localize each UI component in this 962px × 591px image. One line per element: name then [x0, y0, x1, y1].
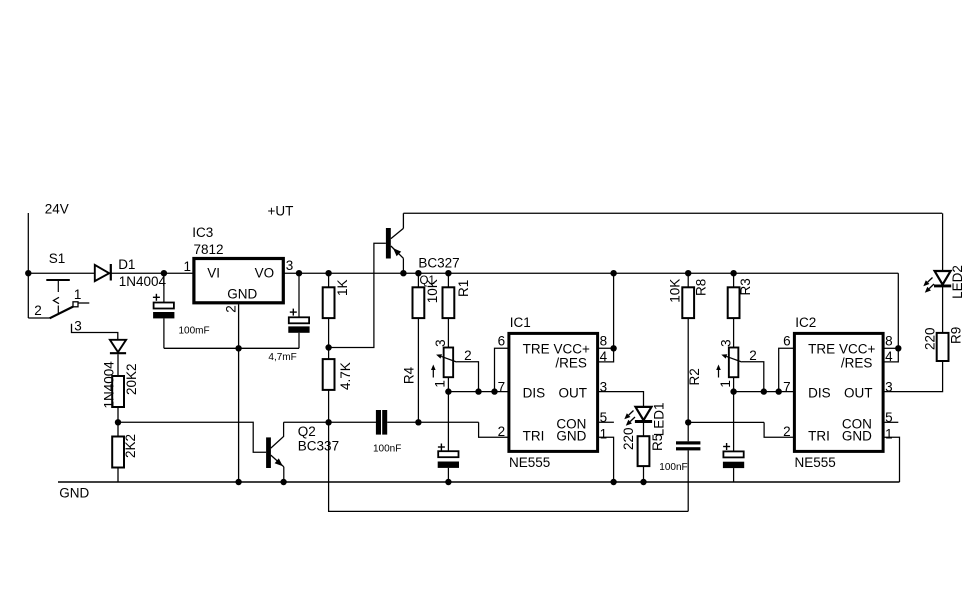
svg-text:4.7K: 4.7K	[338, 362, 353, 390]
svg-text:7: 7	[498, 379, 506, 394]
svg-text:GND: GND	[556, 429, 586, 444]
svg-text:24V: 24V	[45, 202, 69, 217]
svg-text:20K2: 20K2	[124, 363, 139, 395]
svg-text:R8: R8	[694, 279, 709, 296]
svg-text:2K2: 2K2	[123, 434, 138, 458]
svg-text:3: 3	[74, 318, 82, 333]
svg-text:100nF: 100nF	[373, 444, 401, 455]
svg-text:IC2: IC2	[795, 315, 816, 330]
svg-text:+UT: +UT	[268, 204, 294, 219]
svg-text:3: 3	[718, 339, 733, 347]
svg-text:Q2: Q2	[298, 424, 316, 439]
svg-text:NE555: NE555	[509, 455, 550, 470]
svg-text:VCC+: VCC+	[839, 341, 876, 356]
svg-text:TRE: TRE	[523, 341, 550, 356]
svg-text:GND: GND	[59, 486, 89, 501]
svg-text:BC337: BC337	[298, 438, 339, 453]
svg-text:2: 2	[783, 424, 791, 439]
svg-text:IC1: IC1	[510, 315, 531, 330]
svg-text:LED2: LED2	[950, 265, 962, 299]
svg-text:1: 1	[184, 259, 192, 274]
svg-text:100nF: 100nF	[659, 462, 687, 473]
svg-text:BC327: BC327	[418, 256, 459, 271]
svg-text:NE555: NE555	[795, 455, 836, 470]
svg-text:VI: VI	[207, 265, 220, 280]
svg-text:6: 6	[498, 334, 506, 349]
svg-text:GND: GND	[227, 287, 257, 302]
svg-text:/RES: /RES	[555, 356, 587, 371]
svg-text:2: 2	[464, 348, 472, 363]
svg-text:LED1: LED1	[652, 403, 667, 437]
svg-text:7812: 7812	[194, 242, 224, 257]
svg-text:R2: R2	[687, 368, 702, 385]
svg-text:4,7mF: 4,7mF	[268, 352, 296, 363]
svg-text:R9: R9	[948, 327, 962, 344]
svg-text:1: 1	[718, 380, 733, 388]
svg-text:1: 1	[600, 427, 608, 442]
svg-text:VO: VO	[255, 265, 275, 280]
svg-text:2: 2	[224, 305, 239, 313]
svg-text:220: 220	[621, 427, 636, 450]
svg-text:1K: 1K	[335, 279, 350, 296]
svg-text:6: 6	[783, 334, 791, 349]
svg-text:8: 8	[600, 334, 608, 349]
svg-text:3: 3	[433, 339, 448, 347]
svg-text:VCC+: VCC+	[554, 341, 591, 356]
svg-text:R5: R5	[650, 434, 665, 451]
svg-text:1N4004: 1N4004	[119, 274, 167, 289]
svg-text:R3: R3	[738, 278, 753, 295]
svg-text:DIS: DIS	[523, 385, 546, 400]
svg-text:D1: D1	[118, 257, 135, 272]
svg-text:R4: R4	[401, 366, 416, 384]
svg-text:S1: S1	[49, 251, 66, 266]
svg-text:7: 7	[783, 379, 791, 394]
svg-text:100mF: 100mF	[179, 326, 210, 337]
svg-text:IC3: IC3	[192, 225, 213, 240]
svg-text:1: 1	[885, 427, 893, 442]
svg-text:10K: 10K	[667, 279, 682, 303]
svg-text:2: 2	[34, 303, 42, 318]
svg-text:10K: 10K	[425, 279, 440, 303]
svg-text:OUT: OUT	[559, 385, 588, 400]
svg-text:TRI: TRI	[808, 429, 830, 444]
svg-text:1: 1	[433, 380, 448, 388]
svg-text:R1: R1	[456, 280, 471, 297]
svg-text:DIS: DIS	[808, 385, 831, 400]
svg-text:TRE: TRE	[808, 341, 835, 356]
svg-text:3: 3	[286, 258, 294, 273]
svg-text:TRI: TRI	[523, 429, 545, 444]
svg-text:1N4004: 1N4004	[101, 361, 116, 409]
svg-text:1: 1	[74, 287, 82, 302]
svg-text:OUT: OUT	[844, 385, 873, 400]
svg-text:220: 220	[923, 327, 938, 350]
svg-text:/RES: /RES	[841, 356, 873, 371]
svg-text:2: 2	[749, 348, 757, 363]
svg-text:8: 8	[885, 334, 893, 349]
svg-text:GND: GND	[842, 429, 872, 444]
svg-text:2: 2	[498, 424, 506, 439]
